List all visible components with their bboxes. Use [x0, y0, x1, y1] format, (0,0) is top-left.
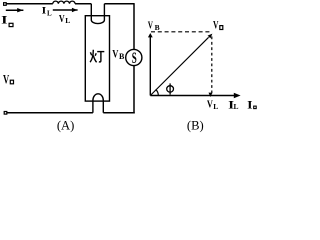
lamp bottom filament: [93, 94, 103, 113]
wire top to lamp: [75, 3, 91, 5]
wire starter branch down: [133, 3, 135, 49]
svg-text:B: B: [119, 52, 125, 61]
svg-text:V: V: [148, 19, 153, 31]
label IL: [42, 7, 52, 18]
label VB axis: [148, 19, 160, 32]
svg-text:V: V: [213, 20, 219, 32]
dashed vertical with arrow: [209, 37, 213, 98]
svg-text:B: B: [155, 23, 160, 32]
vertical axis VB: [148, 33, 153, 96]
current arrow IL: [53, 8, 78, 12]
svg-text:L: L: [213, 102, 218, 111]
svg-text:V: V: [3, 73, 10, 87]
svg-text:L: L: [65, 16, 70, 25]
lamp top filament U: [91, 4, 104, 24]
label VB: [112, 48, 125, 62]
label V tip (box subscript): [213, 20, 223, 32]
svg-text:(A): (A): [57, 118, 74, 132]
terminal bottom-left: [4, 112, 7, 115]
wire top right segment: [104, 3, 134, 5]
label VL on axis: [207, 99, 218, 110]
terminal top-left: [4, 3, 7, 6]
wire bottom right segment: [103, 112, 134, 114]
angle arc phi: [156, 89, 159, 95]
svg-text:V: V: [59, 14, 65, 25]
horizontal axis I: [150, 93, 240, 99]
svg-text:V: V: [112, 48, 119, 61]
current arrow I: [6, 8, 24, 12]
label VL: [59, 14, 70, 25]
svg-text:I: I: [1, 12, 8, 26]
label V source (box subscript): [3, 73, 14, 87]
svg-text:I: I: [42, 7, 47, 17]
svg-text:L: L: [47, 9, 52, 17]
dashed horizontal: [151, 31, 210, 33]
label IL on axis: [228, 99, 238, 111]
phasor V diagonal: [150, 34, 212, 96]
label I axis (box subscript): [247, 100, 256, 112]
svg-text:(B): (B): [187, 118, 204, 132]
lamp label 灯 (drawn strokes): [90, 50, 104, 63]
svg-text:S: S: [132, 50, 137, 67]
wire top left: [6, 3, 53, 5]
svg-text:I: I: [247, 100, 253, 112]
svg-text:L: L: [234, 102, 239, 111]
lamp tube rectangle: [85, 16, 109, 101]
label phi: [167, 83, 174, 94]
label I (phasor box subscript): [1, 12, 13, 26]
inductor L ballast coil: [53, 1, 75, 4]
wire starter to bottom: [133, 66, 135, 114]
wire bottom left segment: [7, 112, 93, 114]
starter S: [126, 49, 142, 67]
